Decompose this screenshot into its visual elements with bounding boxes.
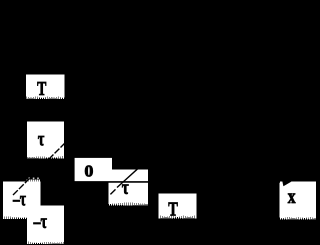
solid diagonal line segment a [110,189,115,194]
svg-text:T: T [168,198,178,220]
solid diagonal line segment b [117,168,138,187]
svg-text:T: T [37,78,47,100]
label box T1 (upper left) [26,75,64,99]
x-axis arrowhead [282,181,291,187]
svg-text:–τ: –τ [12,188,26,210]
label box T2 (bottom middle) [158,194,196,219]
svg-text:0: 0 [84,161,93,180]
label box -tau1 [3,182,41,219]
label box tau1 [27,121,64,158]
label box tau2 (below axis) [109,182,149,206]
label box 0 (origin) [75,158,112,182]
x-axis line [72,181,280,183]
white strip above axis [112,170,148,183]
dotted specks above -tau1 [28,178,30,179]
svg-text:–τ: –τ [33,211,47,233]
label box -tau2 [27,205,64,244]
dashed diagonal line [13,142,66,195]
label box x (axis label) [280,182,316,220]
svg-text:x: x [288,186,296,208]
svg-text:τ: τ [38,128,45,150]
-tau1 top sawtooth [26,179,40,181]
